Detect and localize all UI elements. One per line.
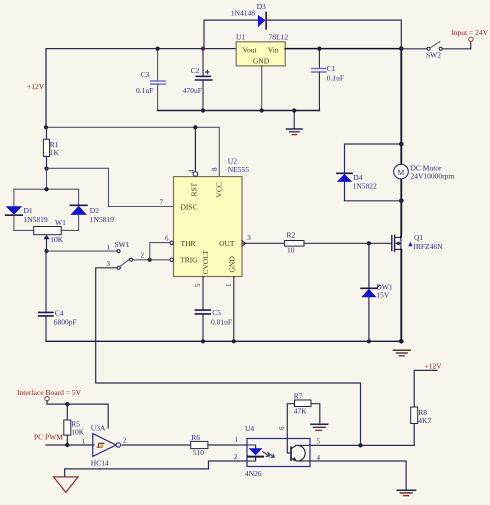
svg-text:DISC: DISC — [181, 202, 198, 211]
svg-text:U1: U1 — [236, 32, 245, 41]
inverter U3A HC14 — [91, 424, 121, 468]
resistor R6 — [191, 433, 208, 457]
svg-text:Input = 24V: Input = 24V — [451, 28, 488, 37]
svg-text:0.1uF: 0.1uF — [136, 86, 153, 95]
svg-text:1: 1 — [107, 243, 111, 251]
wire Vin rail — [285, 48, 401, 50]
junction pin5 node — [358, 443, 362, 447]
junction 24V node — [399, 46, 404, 51]
svg-text:1N5819: 1N5819 — [24, 215, 48, 224]
svg-text:R2: R2 — [287, 231, 296, 240]
wire main 24V vertical (SW2 node to motor) — [400, 49, 402, 165]
svg-text:R6: R6 — [191, 433, 200, 442]
junction GND pin on rail — [232, 339, 236, 343]
svg-text:1N4148: 1N4148 — [231, 8, 255, 17]
svg-text:510: 510 — [193, 448, 205, 457]
zener DW1 15V — [361, 282, 393, 341]
svg-text:RST: RST — [190, 182, 199, 196]
junction C3 top — [156, 47, 160, 51]
svg-text:0.1uF: 0.1uF — [327, 73, 344, 82]
svg-text:C1: C1 — [327, 64, 336, 73]
junction motor top — [399, 142, 404, 147]
wire filter ground bus — [158, 110, 320, 112]
wire 5V feed — [47, 401, 108, 428]
junction gate node — [367, 241, 371, 245]
svg-text:Vin: Vin — [268, 45, 279, 54]
wire U4 pin2 to signal ground — [65, 461, 247, 477]
junction TRIG node — [148, 258, 152, 262]
svg-text:CVOLT: CVOLT — [201, 250, 210, 275]
svg-text:1: 1 — [235, 436, 239, 444]
junction Q1 source on rail — [399, 339, 404, 344]
svg-text:C2: C2 — [191, 66, 200, 75]
svg-text:HC14: HC14 — [91, 459, 109, 468]
svg-text:M: M — [398, 168, 405, 177]
junction ground stem — [292, 108, 296, 112]
svg-text:GND: GND — [228, 256, 237, 273]
phototransistor inside U4 — [291, 445, 309, 461]
svg-text:1: 1 — [225, 283, 233, 287]
diode D1 — [6, 189, 48, 230]
svg-text:THR: THR — [181, 239, 196, 248]
svg-text:1N5819: 1N5819 — [90, 215, 114, 224]
svg-text:GND: GND — [253, 57, 270, 66]
svg-text:IRFZ46N: IRFZ46N — [413, 242, 443, 251]
svg-text:2: 2 — [123, 436, 127, 444]
svg-text:3: 3 — [247, 234, 251, 242]
wire +12V feed rail to U2 VCC — [46, 127, 219, 176]
ground symbol (under U1) — [287, 111, 302, 135]
svg-text:5: 5 — [194, 283, 202, 287]
svg-text:U3A: U3A — [91, 424, 106, 433]
svg-text:7: 7 — [160, 199, 164, 207]
svg-text:2: 2 — [234, 453, 238, 461]
wire gate node to DW1 — [368, 243, 370, 287]
wire wiper to C4 — [45, 251, 47, 312]
junction at +12V rail corner — [44, 125, 48, 129]
ground symbol (power ground) — [393, 350, 410, 356]
pin 3 OUT arrow — [242, 241, 246, 246]
svg-text:C4: C4 — [55, 309, 64, 318]
svg-text:D1: D1 — [24, 206, 33, 215]
svg-text:2: 2 — [141, 252, 145, 260]
potentiometer W1 — [14, 218, 79, 251]
svg-text:SW2: SW2 — [426, 50, 441, 59]
capacitor C5 — [196, 308, 233, 341]
pin 4 RST bubble — [193, 172, 198, 177]
wire OUT to R2 — [242, 242, 285, 244]
wire CVOLT to C5 — [202, 277, 204, 311]
svg-text:3: 3 — [107, 260, 111, 268]
svg-text:+12V: +12V — [27, 82, 45, 91]
diode D3 1N4148 (bypass) — [204, 2, 401, 49]
svg-text:PC PWM: PC PWM — [34, 433, 63, 442]
ground signal (triangle) — [54, 477, 79, 493]
wire U3A out to R6 — [122, 444, 191, 446]
wire TRIG link — [150, 259, 170, 261]
junction C2/D3 top — [201, 47, 205, 51]
diode D2 — [70, 189, 114, 230]
pin 6 base wire — [287, 439, 291, 454]
svg-text:15V: 15V — [376, 291, 390, 300]
svg-text:U4: U4 — [245, 424, 254, 433]
svg-text:D2: D2 — [90, 206, 99, 215]
svg-text:+12V: +12V — [425, 362, 443, 371]
ground symbol (R7) — [311, 424, 328, 430]
svg-text:4: 4 — [188, 169, 196, 173]
wire U1 GND pin — [261, 66, 263, 111]
svg-text:78L12: 78L12 — [269, 32, 289, 41]
svg-text:OUT: OUT — [219, 239, 235, 248]
op-amp U2 NE555 body — [174, 157, 250, 277]
wire Q1 source to ground rail — [400, 249, 402, 341]
wire PC PWM input — [46, 444, 94, 446]
svg-text:SW1: SW1 — [115, 240, 130, 249]
wire +12V to R8 — [414, 370, 437, 407]
switch SW2 — [401, 42, 470, 60]
wire pin5 node — [309, 444, 414, 446]
junction wiper node — [44, 249, 48, 253]
regulator U1 78L12 — [236, 32, 288, 66]
junction R1 bottom — [44, 167, 48, 171]
wire R2 to gate — [304, 242, 392, 244]
wire SW1 pin3 to opto node — [96, 268, 361, 446]
junction U1 GND bottom — [260, 108, 264, 112]
wire to input terminal — [470, 42, 472, 49]
svg-text:C3: C3 — [141, 70, 150, 79]
wire pin4 to ground — [309, 461, 406, 490]
svg-text:Interface Board = 5V: Interface Board = 5V — [17, 388, 82, 397]
svg-text:1N5822: 1N5822 — [353, 182, 377, 191]
svg-text:6: 6 — [278, 426, 286, 430]
junction C2 bottom — [201, 108, 205, 112]
svg-text:8: 8 — [211, 167, 219, 171]
wire motor to Q1 drain — [400, 179, 402, 238]
svg-text:VCC: VCC — [215, 182, 224, 197]
diode D4 1N5822 (flyback) — [337, 144, 401, 201]
resistor R5 — [64, 404, 85, 445]
svg-text:10K: 10K — [71, 428, 85, 437]
resistor R7 — [287, 392, 311, 439]
junction RST branch — [193, 125, 197, 129]
transistor Q1 IRFZ46N — [392, 233, 443, 252]
pin 6 THR circle — [170, 241, 173, 244]
capacitor C3 — [136, 49, 165, 111]
junction DW1 on rail — [367, 339, 371, 343]
svg-text:47K: 47K — [294, 407, 308, 416]
svg-text:0.01uF: 0.01uF — [211, 318, 232, 327]
svg-text:1K: 1K — [50, 148, 60, 157]
wire RST branch — [194, 127, 196, 171]
capacitor C1 — [312, 49, 344, 111]
svg-text:NE555: NE555 — [228, 165, 249, 174]
ground symbol (U4 emitter) — [397, 490, 415, 495]
svg-text:10K: 10K — [50, 235, 64, 244]
optocoupler U4 4N26 — [245, 424, 310, 478]
node interface terminal — [45, 396, 49, 400]
svg-text:10: 10 — [287, 245, 295, 254]
svg-text:TRIG: TRIG — [180, 256, 198, 265]
svg-text:4N26: 4N26 — [245, 469, 262, 478]
wire R6 to U4 pin1 — [208, 444, 247, 446]
capacitor C4 — [39, 309, 77, 342]
svg-text:6800pF: 6800pF — [54, 318, 77, 327]
capacitor C2 (electrolytic) — [183, 49, 212, 111]
svg-text:D4: D4 — [353, 173, 362, 182]
svg-text:R7: R7 — [294, 392, 303, 401]
svg-text:D3: D3 — [257, 2, 266, 11]
junction C5 on rail — [201, 339, 205, 343]
LED inside U4 — [247, 445, 274, 461]
junction R5 top — [65, 402, 69, 406]
wire R7 to ground — [311, 404, 320, 424]
motor M1 DC Motor — [394, 163, 455, 180]
wire DISC net (R1 to pin7) — [47, 168, 174, 206]
svg-text:6: 6 — [165, 235, 169, 243]
svg-text:1: 1 — [82, 437, 86, 445]
wire THR link — [150, 243, 170, 260]
svg-text:4K7: 4K7 — [418, 416, 431, 425]
svg-text:5: 5 — [317, 437, 321, 445]
svg-text:C5: C5 — [212, 308, 221, 317]
wire wiper to SW1 pin1 — [47, 250, 117, 252]
ground rail — [46, 340, 401, 342]
wire SW1 pole to TRIG node — [133, 259, 150, 261]
wire GND pin to rail — [233, 277, 235, 342]
junction motor bottom — [399, 199, 404, 204]
node Input terminal — [469, 37, 473, 41]
resistor R8 — [411, 407, 432, 445]
wire +12V rail (Vout net, top left) — [46, 49, 236, 128]
svg-text:24V10000rpm: 24V10000rpm — [411, 172, 455, 181]
resistor R1 — [43, 127, 59, 168]
pin 2 TRIG circle — [170, 258, 173, 261]
junction C1 top — [317, 47, 321, 51]
svg-text:W1: W1 — [55, 218, 66, 227]
svg-text:Q1: Q1 — [414, 233, 423, 242]
svg-text:470uF: 470uF — [183, 86, 202, 95]
resistor R2 — [285, 231, 304, 255]
switch SW1 — [107, 240, 133, 269]
wire D1/D2 block top — [14, 169, 79, 192]
svg-text:Vout: Vout — [243, 45, 258, 54]
junction R5 bottom — [65, 443, 69, 447]
